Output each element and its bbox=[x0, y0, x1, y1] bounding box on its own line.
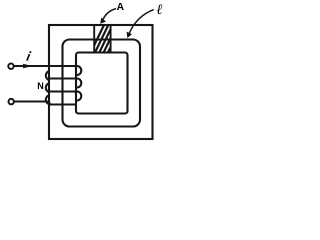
svg-text:N: N bbox=[37, 81, 44, 91]
winding right arc 2 bbox=[77, 79, 81, 88]
winding left arc 2 bbox=[46, 83, 50, 92]
core outer edge bbox=[49, 25, 153, 139]
mean path l (rounded) bbox=[63, 40, 141, 127]
svg-text:ℓ: ℓ bbox=[156, 2, 162, 18]
winding right arc 1 bbox=[77, 66, 81, 75]
cross-section A hatched bbox=[90, 25, 126, 54]
winding turn 4 wire bbox=[49, 104, 77, 106]
winding left arc 3 bbox=[46, 95, 50, 104]
winding turn 2 wire bbox=[49, 78, 77, 80]
winding turn 3 wire bbox=[49, 91, 77, 93]
bottom lead wire bbox=[14, 102, 50, 105]
current arrow i bbox=[23, 64, 32, 69]
winding right arc 3 bbox=[77, 92, 81, 101]
svg-text:i: i bbox=[25, 49, 33, 64]
winding turn 1 wire bbox=[14, 65, 77, 67]
terminal bottom bbox=[9, 99, 14, 104]
label A leader arrow bbox=[103, 9, 116, 21]
winding left arc 1 bbox=[46, 71, 50, 80]
label l leader arrow bbox=[129, 10, 154, 35]
core inner window bbox=[76, 53, 128, 114]
terminal top bbox=[8, 63, 13, 68]
svg-text:A: A bbox=[117, 1, 125, 13]
